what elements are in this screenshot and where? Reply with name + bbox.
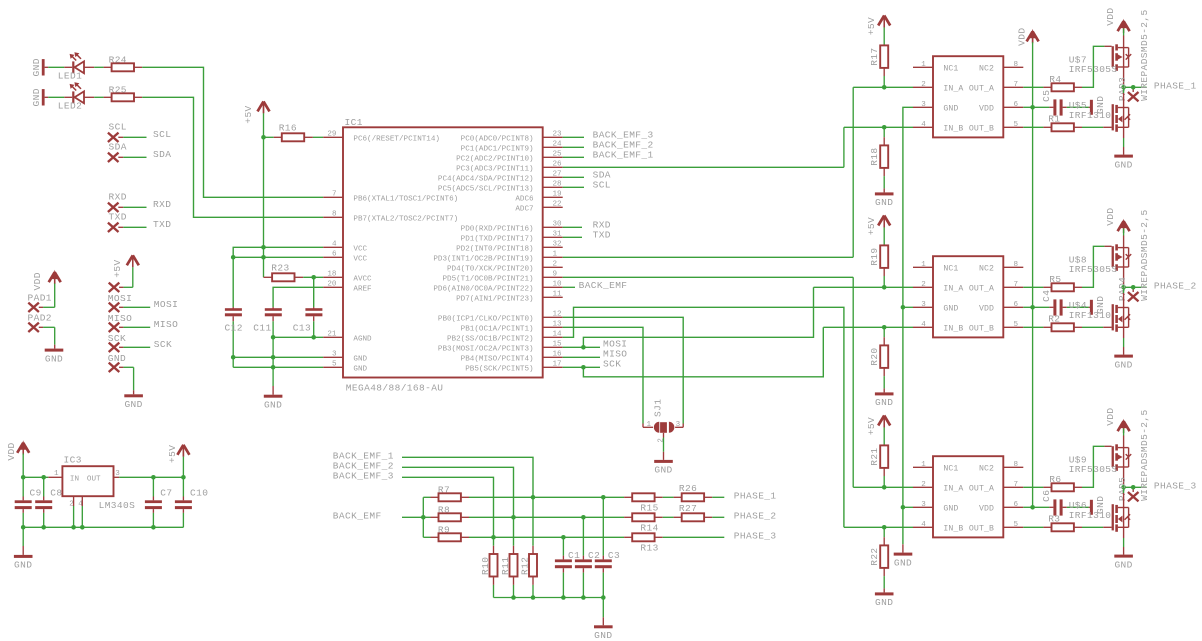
svg-text:IN_B: IN_B xyxy=(943,125,963,134)
resistor R19 xyxy=(869,245,888,268)
wire xyxy=(602,598,604,626)
wire xyxy=(563,156,584,158)
wire xyxy=(182,446,184,477)
capacitor C3 xyxy=(595,497,620,597)
pin 4 of driver 1 xyxy=(913,121,933,129)
svg-text:MISO: MISO xyxy=(108,313,132,324)
svg-text:7: 7 xyxy=(332,191,337,199)
wire divider input column xyxy=(422,497,424,537)
net label SDA xyxy=(153,149,171,160)
svg-text:26: 26 xyxy=(553,161,563,169)
svg-text:PC2(ADC2/PCINT10): PC2(ADC2/PCINT10) xyxy=(456,156,533,164)
pin 23 PC0(ADC0/PCINT8) of IC1 xyxy=(461,131,563,144)
node +5V junctions xyxy=(261,135,266,260)
svg-text:PD4(T0/XCK/PCINT20): PD4(T0/XCK/PCINT20) xyxy=(447,266,534,274)
node IN_A junction xyxy=(882,485,887,490)
svg-text:30: 30 xyxy=(553,221,563,229)
capacitor C11 xyxy=(253,307,281,337)
wire SJ1 pin 2 to ground xyxy=(663,433,665,460)
wire +5V vertical to VCC and R23 xyxy=(263,103,265,277)
svg-text:IRF1310: IRF1310 xyxy=(1069,510,1112,521)
svg-text:TXD: TXD xyxy=(593,230,611,241)
node BACK_EMF junction xyxy=(421,515,426,520)
supply VDD arrow above U$8 xyxy=(1105,207,1130,233)
svg-text:5: 5 xyxy=(1014,321,1019,329)
pin 15 PB3(MOSI/OC2A/PCINT3) of IC1 xyxy=(438,341,563,354)
pin 19 ADC6 of IC1 xyxy=(515,191,562,204)
wire xyxy=(1023,126,1051,128)
ground GND at ISP xyxy=(124,394,143,410)
node IN_B junction xyxy=(882,325,887,330)
capacitor C7 xyxy=(145,477,173,527)
svg-text:AREF: AREF xyxy=(353,286,372,294)
svg-text:GND: GND xyxy=(875,597,893,608)
svg-text:OUT_B: OUT_B xyxy=(969,125,994,134)
svg-text:GND: GND xyxy=(264,400,282,411)
svg-text:R17: R17 xyxy=(869,47,880,65)
svg-text:R25: R25 xyxy=(109,84,127,95)
wire AREF to C11 xyxy=(273,287,323,307)
ground GND below IC1 xyxy=(264,395,283,411)
pin 12 PB0(ICP1/CLKO/PCINT0) of IC1 xyxy=(438,311,563,324)
svg-text:IRF1310: IRF1310 xyxy=(1069,310,1112,321)
wire pad PAD4 xyxy=(1117,277,1138,302)
wire xyxy=(1023,506,1053,508)
capacitor C2 xyxy=(575,517,600,597)
pin 26 PC3(ADC3/PCINT11) of IC1 xyxy=(456,161,563,174)
svg-text:3: 3 xyxy=(921,501,926,509)
ground GND below U$6 xyxy=(1114,555,1133,571)
wire pad +5V of ISP xyxy=(109,283,120,292)
svg-text:MISO: MISO xyxy=(154,319,178,330)
wire xyxy=(119,346,150,348)
svg-text:PB1(OC1A/PCINT1): PB1(OC1A/PCINT1) xyxy=(461,326,534,334)
svg-text:IC3: IC3 xyxy=(64,454,82,465)
wire xyxy=(39,306,55,308)
wire xyxy=(563,186,584,188)
pin 29 PC6(/RESET/PCINT14) of IC1 xyxy=(323,131,440,144)
node +5V output rail xyxy=(151,475,186,480)
resistor R8 xyxy=(438,504,461,521)
wire IN_A of driver 2 xyxy=(814,286,914,288)
pin 8 of driver 1 xyxy=(1003,61,1023,69)
svg-text:AVCC: AVCC xyxy=(353,276,372,284)
ground GND at PAD2 xyxy=(45,349,64,365)
svg-text:2: 2 xyxy=(553,261,558,269)
net label WIREPADSMD5-2,5 xyxy=(1139,409,1150,501)
svg-text:19: 19 xyxy=(553,191,563,199)
svg-text:5: 5 xyxy=(1014,521,1019,529)
svg-text:13: 13 xyxy=(553,321,563,329)
wire pad MISO xyxy=(108,313,132,332)
wire xyxy=(84,66,112,68)
net label BACK_EMF_1 xyxy=(593,150,654,161)
transistor U$5 IRF1310 xyxy=(1069,87,1130,138)
net label PHASE_3 xyxy=(734,531,777,542)
ground GND below U$5 xyxy=(1114,155,1133,171)
wire MOSI stub xyxy=(563,346,600,348)
resistor R4 xyxy=(1049,74,1074,91)
svg-text:C3: C3 xyxy=(608,550,620,561)
svg-text:32: 32 xyxy=(553,241,563,249)
net label MISO xyxy=(603,349,627,360)
net label SCL xyxy=(153,129,171,140)
svg-text:PC5(ADC5/SCL/PCINT13): PC5(ADC5/SCL/PCINT13) xyxy=(438,186,534,194)
svg-text:PB5(SCK/PCINT5): PB5(SCK/PCINT5) xyxy=(465,366,533,374)
svg-text:VDD: VDD xyxy=(979,305,994,314)
svg-text:GND: GND xyxy=(1114,359,1132,370)
net label BACK_EMF_2 xyxy=(333,460,394,471)
svg-text:C4: C4 xyxy=(1041,290,1052,302)
svg-text:+5V: +5V xyxy=(243,105,254,123)
svg-text:BACK_EMF_3: BACK_EMF_3 xyxy=(333,470,394,481)
svg-text:VCC: VCC xyxy=(353,246,367,254)
svg-text:5: 5 xyxy=(1014,121,1019,129)
svg-text:MOSI: MOSI xyxy=(154,299,178,310)
pin 3 of driver 3 xyxy=(913,501,933,509)
svg-text:PB3(MOSI/OC2A/PCINT3): PB3(MOSI/OC2A/PCINT3) xyxy=(438,346,534,354)
net label PHASE_1 xyxy=(734,491,777,502)
svg-text:SCL: SCL xyxy=(153,129,171,140)
pin 8 of driver 3 xyxy=(1003,461,1023,469)
wire BACK_EMF_3 xyxy=(402,477,494,554)
wire net PD3 to driver1 IN_A xyxy=(563,87,854,257)
pin 2 PD4(T0/XCK/PCINT20) of IC1 xyxy=(447,261,563,274)
svg-text:C9: C9 xyxy=(30,487,42,498)
pin 4 of driver 3 xyxy=(913,521,933,529)
wire xyxy=(883,568,885,593)
pin 27 PC4(ADC4/SDA/PCINT12) of IC1 xyxy=(438,171,563,184)
svg-text:R4: R4 xyxy=(1049,74,1061,85)
wire xyxy=(1074,446,1112,487)
wire net PB3 MOSI to driver2 IN_A xyxy=(583,287,813,347)
wire xyxy=(423,516,438,518)
node phase junctions xyxy=(1121,85,1135,90)
net label TXD xyxy=(153,219,171,230)
svg-text:GND: GND xyxy=(894,557,912,568)
svg-text:SCK: SCK xyxy=(154,339,172,350)
wire IN_A of driver 1 xyxy=(853,86,913,88)
ground GND bar at LED2 xyxy=(31,88,44,106)
svg-text:IRF1310: IRF1310 xyxy=(1069,110,1112,121)
svg-text:R12: R12 xyxy=(519,557,530,575)
svg-text:PD2(INT0/PCINT18): PD2(INT0/PCINT18) xyxy=(456,246,533,254)
net label WIREPADSMD5-2,5 xyxy=(1139,9,1150,101)
svg-text:15: 15 xyxy=(553,341,563,349)
pin 1 PD3(INT1/OC2B/PCINT19) of IC1 xyxy=(433,251,562,264)
svg-text:R14: R14 xyxy=(640,523,658,534)
svg-text:27: 27 xyxy=(553,171,562,179)
pin 5 of driver 3 xyxy=(1003,521,1023,529)
pin 7 of driver 1 xyxy=(1003,81,1023,89)
wire pad PAD1 xyxy=(28,293,52,312)
svg-text:PC0(ADC0/PCINT8): PC0(ADC0/PCINT8) xyxy=(461,136,534,144)
pin 14 PB2(SS/OC1B/PCINT2) of IC1 xyxy=(447,331,563,344)
capacitor C4 xyxy=(1041,290,1062,316)
supply +5V arrow at regulator output xyxy=(167,445,189,463)
wire xyxy=(22,527,24,555)
IC3 regulator LM340S xyxy=(54,454,135,511)
svg-text:IRF5305S: IRF5305S xyxy=(1069,464,1118,475)
node SCK junction xyxy=(581,365,586,370)
wire xyxy=(1074,126,1112,128)
pin 21 AGND of IC1 xyxy=(323,331,372,344)
ground GND right of C5 xyxy=(1090,96,1106,115)
resistor R3 xyxy=(1048,513,1074,531)
wire BACK_EMF_2 xyxy=(402,467,514,554)
wire xyxy=(118,136,146,138)
svg-text:8: 8 xyxy=(1014,261,1019,269)
svg-text:NC1: NC1 xyxy=(943,65,958,74)
svg-text:GND: GND xyxy=(108,353,126,364)
wire xyxy=(1123,538,1125,555)
svg-text:PB7(XTAL2/TOSC2/PCINT7): PB7(XTAL2/TOSC2/PCINT7) xyxy=(353,216,458,224)
svg-text:3: 3 xyxy=(676,421,681,429)
svg-text:IN_B: IN_B xyxy=(943,325,963,334)
net label SCK xyxy=(154,339,172,350)
svg-text:1: 1 xyxy=(54,470,59,478)
svg-text:6: 6 xyxy=(1014,501,1019,509)
svg-text:R27: R27 xyxy=(679,503,697,514)
wire net PD5 to driver3 IN_A xyxy=(563,277,854,487)
svg-text:RXD: RXD xyxy=(153,199,171,210)
wire xyxy=(1074,246,1112,287)
pin 6 of driver 3 xyxy=(1003,501,1023,509)
pin 6 of driver 2 xyxy=(1003,301,1023,309)
svg-text:PB2(SS/OC1B/PCINT2): PB2(SS/OC1B/PCINT2) xyxy=(447,336,534,344)
wire xyxy=(883,527,885,545)
svg-text:R23: R23 xyxy=(271,263,289,274)
wire xyxy=(84,96,112,98)
svg-text:18: 18 xyxy=(327,271,337,279)
wire xyxy=(1063,106,1090,108)
capacitor C13 xyxy=(293,307,323,337)
wire ground rail of divider xyxy=(494,597,604,599)
svg-text:R7: R7 xyxy=(438,484,450,495)
wire xyxy=(563,146,584,148)
svg-text:PD3(INT1/OC2B/PCINT19): PD3(INT1/OC2B/PCINT19) xyxy=(433,256,533,264)
wire xyxy=(883,468,885,487)
svg-text:7: 7 xyxy=(1014,281,1019,289)
ground GND at divider xyxy=(594,625,613,641)
svg-text:WIREPADSMD5-2,5: WIREPADSMD5-2,5 xyxy=(1139,409,1150,501)
pin 3 GND of IC1 xyxy=(323,351,367,364)
svg-text:GND: GND xyxy=(875,197,893,208)
svg-text:ADC6: ADC6 xyxy=(515,196,534,204)
node rail junctions xyxy=(511,595,605,600)
svg-text:6: 6 xyxy=(1014,301,1019,309)
svg-text:PB6(XTAL1/TOSC1/PCINT6): PB6(XTAL1/TOSC1/PCINT6) xyxy=(353,196,458,204)
wire xyxy=(461,516,632,518)
svg-text:BACK_EMF_1: BACK_EMF_1 xyxy=(593,150,654,161)
wire xyxy=(45,66,73,68)
svg-text:2: 2 xyxy=(921,281,926,289)
pin 31 PD1(TXD/PCINT17) of IC1 xyxy=(461,231,563,244)
supply VDD arrow at IC3 xyxy=(6,440,29,460)
svg-text:R13: R13 xyxy=(640,543,658,554)
capacitor C8 xyxy=(35,477,62,527)
svg-text:7: 7 xyxy=(1014,481,1019,489)
wire xyxy=(513,577,515,598)
svg-text:C5: C5 xyxy=(1041,90,1052,102)
node VDD input rail xyxy=(21,475,46,480)
pin 7 of driver 2 xyxy=(1003,281,1023,289)
resistor R25 xyxy=(109,84,134,101)
wire xyxy=(883,417,885,446)
wire xyxy=(883,327,885,345)
wire xyxy=(1074,326,1112,328)
wire xyxy=(1123,22,1125,36)
svg-text:PD0(RXD/PCINT16): PD0(RXD/PCINT16) xyxy=(461,226,534,234)
svg-text:1: 1 xyxy=(921,261,926,269)
wire net PB2 to driver3 IN_B xyxy=(563,307,844,527)
svg-text:R20: R20 xyxy=(869,347,880,365)
capacitor C5 xyxy=(1041,90,1062,116)
svg-text:GND: GND xyxy=(31,58,42,76)
resistor R20 xyxy=(869,345,888,368)
svg-text:WIREPADSMD5-2,5: WIREPADSMD5-2,5 xyxy=(1139,209,1150,301)
svg-text:TXD: TXD xyxy=(109,212,127,223)
wire IN_B of driver 1 xyxy=(844,126,913,128)
net label SDA xyxy=(593,170,611,181)
svg-text:PC3(ADC3/PCINT11): PC3(ADC3/PCINT11) xyxy=(456,166,533,174)
wire pad PAD5 xyxy=(1117,477,1138,502)
svg-text:C7: C7 xyxy=(160,487,172,498)
wire xyxy=(883,17,885,46)
pin 7 PB6(XTAL1/TOSC1/PCINT6) of IC1 xyxy=(323,191,458,204)
node phase junctions xyxy=(1121,285,1135,290)
supply +5V arrow above R19 xyxy=(866,216,890,236)
svg-text:OUT: OUT xyxy=(87,476,101,484)
svg-text:23: 23 xyxy=(553,131,563,139)
svg-text:GND: GND xyxy=(1114,559,1132,570)
resistor R9 xyxy=(438,524,461,541)
wire xyxy=(704,496,724,498)
pin 9 PD5(T1/OC0B/PCINT21) of IC1 xyxy=(442,271,562,284)
svg-text:17: 17 xyxy=(553,361,562,369)
wire SCK stub xyxy=(563,366,600,368)
svg-text:C12: C12 xyxy=(225,322,243,333)
wire pad GND of ISP xyxy=(108,353,126,372)
svg-text:VDD: VDD xyxy=(32,272,43,290)
pin 2 of driver 1 xyxy=(913,81,933,89)
ground GND right of C6 xyxy=(1090,496,1106,515)
svg-text:GND: GND xyxy=(14,560,32,571)
svg-text:22: 22 xyxy=(553,201,563,209)
supply VDD arrow above U$7 xyxy=(1105,7,1130,33)
supply VDD arrow above U$9 xyxy=(1105,407,1130,433)
svg-text:2: 2 xyxy=(921,81,926,89)
svg-text:VCC: VCC xyxy=(353,256,367,264)
pin 22 ADC7 of IC1 xyxy=(515,201,562,214)
wire xyxy=(655,536,725,538)
pin 1 of driver 2 xyxy=(913,261,933,269)
wire xyxy=(54,273,56,308)
pin 32 PD2(INT0/PCINT18) of IC1 xyxy=(456,241,563,254)
svg-text:3: 3 xyxy=(115,470,120,478)
IC U1 box MEGA48/88/168-AU xyxy=(343,117,543,394)
svg-text:6: 6 xyxy=(1014,101,1019,109)
capacitor C10 xyxy=(175,477,208,527)
net label WIREPADSMD5-2,5 xyxy=(1139,209,1150,301)
svg-text:2: 2 xyxy=(921,481,926,489)
wire xyxy=(563,226,582,228)
svg-text:C2: C2 xyxy=(588,550,600,561)
svg-text:VDD: VDD xyxy=(1105,7,1116,25)
wire VCC rows xyxy=(233,247,323,307)
wire C11 down to ground xyxy=(272,337,274,386)
ground GND bar at LED1 xyxy=(31,58,44,76)
svg-text:1: 1 xyxy=(553,251,558,259)
svg-text:LM340S: LM340S xyxy=(99,500,136,511)
svg-text:GND: GND xyxy=(654,465,672,476)
svg-text:VDD: VDD xyxy=(1105,207,1116,225)
transistor U$9 IRF5305S xyxy=(1069,436,1132,488)
pin 1 of driver 1 xyxy=(913,61,933,69)
wire xyxy=(1023,86,1051,88)
wire pad TXD xyxy=(108,212,127,232)
pin 4 VCC of IC1 xyxy=(323,241,367,254)
resistor R15 xyxy=(632,493,659,513)
svg-text:NC2: NC2 xyxy=(979,465,994,474)
node IN_A junction xyxy=(882,285,887,290)
svg-text:29: 29 xyxy=(327,131,337,139)
svg-text:12: 12 xyxy=(553,311,563,319)
wire xyxy=(304,136,323,138)
resistor R2 xyxy=(1048,313,1074,331)
resistor R1 xyxy=(1048,113,1074,131)
resistor R12 xyxy=(519,554,537,577)
transistor U$7 IRF5305S xyxy=(1069,36,1132,88)
wire ground rail of regulator xyxy=(23,526,183,528)
wire xyxy=(1023,526,1051,528)
LED LED1 xyxy=(58,52,84,81)
svg-text:14: 14 xyxy=(553,331,563,339)
svg-text:+5V: +5V xyxy=(866,17,877,35)
ground GND at regulator xyxy=(14,555,33,571)
node VDD rail junctions xyxy=(1030,105,1035,510)
svg-text:PHASE_3: PHASE_3 xyxy=(1154,481,1197,492)
supply +5V arrow at ISP xyxy=(112,255,139,277)
svg-text:10: 10 xyxy=(553,281,563,289)
svg-text:GND: GND xyxy=(45,353,63,364)
svg-text:PC6(/RESET/PCINT14): PC6(/RESET/PCINT14) xyxy=(353,136,440,144)
capacitor C12 xyxy=(225,307,243,367)
svg-text:PC1(ADC1/PCINT9): PC1(ADC1/PCINT9) xyxy=(461,146,534,154)
wire xyxy=(655,496,682,498)
svg-text:OUT_B: OUT_B xyxy=(969,525,994,534)
svg-text:PAD1: PAD1 xyxy=(28,293,52,304)
svg-text:3: 3 xyxy=(921,101,926,109)
pin 6 of driver 1 xyxy=(1003,101,1023,109)
wire xyxy=(493,577,495,598)
transistor U$6 IRF1310 xyxy=(1069,487,1130,538)
svg-text:NC1: NC1 xyxy=(943,265,958,274)
resistor R21 xyxy=(869,445,888,468)
node divider junctions row 1 xyxy=(531,495,606,500)
svg-text:PAD3: PAD3 xyxy=(1117,77,1128,101)
resistor R23 xyxy=(264,263,324,282)
resistor R6 xyxy=(1049,474,1074,491)
wire xyxy=(883,68,885,87)
pin 2 of driver 2 xyxy=(913,281,933,289)
svg-text:9: 9 xyxy=(553,271,558,279)
svg-text:IN_A: IN_A xyxy=(943,85,963,94)
wire pad PAD3 xyxy=(1117,77,1138,102)
svg-text:GND: GND xyxy=(353,366,367,374)
svg-text:LED1: LED1 xyxy=(58,71,82,82)
wire xyxy=(1074,46,1112,87)
